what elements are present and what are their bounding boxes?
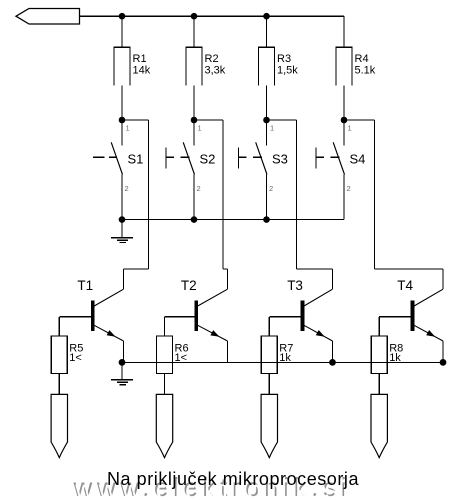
connector X1 (to uP port, top-left) [16, 9, 80, 25]
transistor T2 [194, 289, 227, 341]
resistor R6 [157, 336, 173, 374]
svg-text:2: 2 [197, 184, 201, 193]
wire R3 bottom lead [266, 85, 268, 120]
node R3/S3 junction [263, 117, 270, 124]
svg-text:S3: S3 [272, 152, 288, 167]
wire T1 emitter vertical [123, 341, 125, 362]
switch S2 actuator [165, 148, 167, 169]
svg-text:1: 1 [198, 124, 202, 133]
switch S3 bottom stub [266, 175, 268, 220]
switch S1 actuator [93, 156, 104, 158]
resistor R5 [51, 336, 67, 374]
wire R5 bottom lead [58, 374, 60, 395]
connector pin 1 (to microprocessor) [51, 394, 67, 457]
svg-text:3,3k: 3,3k [205, 64, 226, 76]
node top-rail junction 2 [191, 13, 198, 20]
resistor R4 (open-bottom box) [336, 47, 352, 85]
svg-text:T2: T2 [181, 278, 197, 293]
wire T3 emitter vertical [332, 341, 334, 362]
wire T2 base [165, 316, 195, 318]
node R4/S4 junction [341, 117, 348, 124]
switch S1 top stub [121, 120, 123, 146]
wire top supply rail [80, 15, 345, 17]
node switch rail junction 1 [119, 216, 126, 223]
svg-text:R4: R4 [355, 53, 369, 65]
ground GND2 [111, 362, 133, 384]
svg-text:1,5k: 1,5k [277, 64, 298, 76]
wire feed vertical 2 [222, 120, 224, 269]
switch S3 actuator [238, 148, 240, 169]
switch S4 actuator [315, 148, 317, 169]
node top-rail junction 3 [263, 13, 270, 20]
node top-rail junction 1 [119, 13, 126, 20]
node emitter rail T3 [329, 359, 336, 366]
wire drop vertical 3 [332, 269, 334, 289]
wire T1 base [59, 316, 91, 318]
svg-text:5.1k: 5.1k [355, 64, 376, 76]
svg-text:1: 1 [348, 124, 352, 133]
resistor R2 (open-bottom box) [186, 47, 202, 85]
wire T2 emitter vertical [227, 341, 229, 362]
svg-text:T1: T1 [77, 278, 93, 293]
wire feed vertical 1 [148, 120, 150, 269]
wire T4 emitter vertical [442, 341, 444, 362]
wire junction 4 to feed [344, 119, 374, 121]
svg-text:2: 2 [347, 184, 351, 193]
switch S3 top stub [266, 120, 268, 146]
switch S3 blade [256, 142, 267, 174]
svg-text:R3: R3 [277, 53, 291, 65]
switch S2 top stub [193, 120, 195, 146]
node R1/S1 junction [119, 117, 126, 124]
node switch rail junction 3 [263, 216, 270, 223]
wire feed step 3 [297, 268, 333, 270]
resistor R3 (open-bottom box) [259, 47, 275, 85]
wire R1 bottom lead [121, 85, 123, 120]
node emitter rail T1 [119, 359, 126, 366]
wire T4 base [379, 316, 411, 318]
switch S2 blade [183, 142, 194, 174]
switch S1 blade [111, 142, 122, 174]
switch S4 bottom stub [343, 175, 345, 220]
transistor T3 [301, 289, 333, 341]
transistor T1 [91, 289, 124, 341]
wire R2 bottom lead [193, 85, 195, 120]
svg-text:T4: T4 [397, 278, 413, 293]
wire R7 bottom lead [268, 374, 270, 395]
transistor T4 [411, 289, 443, 341]
svg-text:2: 2 [269, 184, 273, 193]
ground GND1 [111, 220, 133, 243]
wire junction 3 to feed [267, 119, 297, 121]
switch S2 bottom stub [193, 175, 195, 220]
wire R6 bottom lead [164, 374, 166, 395]
wire junction 1 to feed [122, 119, 149, 121]
wire T3 base [269, 316, 300, 318]
wire base down to R7 [268, 317, 270, 336]
wire feed vertical 4 [373, 120, 375, 269]
svg-text:2: 2 [125, 184, 129, 193]
node emitter rail T4 [440, 359, 447, 366]
switch S4 blade [333, 142, 344, 174]
wire base down to R5 [58, 317, 60, 336]
resistor R1 (open-bottom box) [114, 47, 130, 85]
svg-text:R1: R1 [133, 53, 147, 65]
wire feed step 2 [223, 268, 228, 270]
svg-text:S2: S2 [200, 152, 216, 167]
wire R4 top lead [343, 16, 345, 47]
svg-text:1: 1 [270, 124, 274, 133]
wire feed vertical 3 [296, 120, 298, 269]
wire R3 top lead [266, 16, 268, 47]
switch S4 top stub [343, 120, 345, 146]
wire drop vertical 1 [123, 269, 125, 289]
svg-text:T3: T3 [287, 278, 303, 293]
svg-text:S4: S4 [350, 152, 366, 167]
wire drop vertical 2 [227, 269, 229, 289]
connector pin 3 (to microprocessor) [261, 394, 277, 457]
wire junction 2 to feed [194, 119, 223, 121]
resistor R8 [371, 336, 387, 374]
wire feed step 1 [124, 268, 149, 270]
wire R8 bottom lead [378, 374, 380, 395]
connector pin 2 (to microprocessor) [156, 394, 172, 457]
resistor R7 [261, 336, 277, 374]
svg-text:1: 1 [126, 124, 130, 133]
wire R2 top lead [193, 16, 195, 47]
svg-text:Na priključek mikroprocesorja: Na priključek mikroprocesorja [107, 469, 359, 489]
wire feed step 4 [374, 268, 443, 270]
svg-text:S1: S1 [128, 152, 144, 167]
switch S1 bottom stub [121, 175, 123, 220]
svg-text:14k: 14k [133, 64, 151, 76]
wire switch ground rail [122, 219, 344, 221]
wire base down to R8 [378, 317, 380, 336]
wire emitter ground rail [122, 361, 443, 363]
wire R1 top lead [121, 16, 123, 47]
wire corner down to R4 [343, 16, 345, 47]
wire base down to R6 [164, 317, 166, 336]
node R2/S2 junction [191, 117, 198, 124]
wire R4 bottom lead [343, 85, 345, 120]
node switch rail junction 2 [191, 216, 198, 223]
svg-text:1<: 1< [69, 352, 82, 364]
wire drop vertical 4 [442, 269, 444, 289]
connector pin 4 (to microprocessor) [371, 394, 387, 457]
svg-text:R2: R2 [205, 53, 219, 65]
